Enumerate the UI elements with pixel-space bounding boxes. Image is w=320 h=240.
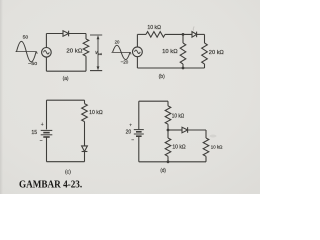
svg-text:+: +	[41, 122, 44, 128]
wire bottom rail (d)	[139, 161, 206, 163]
wire middle branch mid (d)	[167, 130, 169, 138]
ac source V2	[133, 47, 143, 57]
wire right branch top (d)	[205, 130, 207, 138]
diode D3 down	[82, 146, 88, 152]
resistor R4 20k	[202, 43, 208, 64]
wire right branch bottom (b)	[204, 64, 206, 68]
resistor R5 10k	[82, 104, 88, 122]
resistor R8 10k	[203, 138, 209, 156]
label R6 10 kOhm	[172, 113, 185, 119]
wire left branch bottom (c)	[46, 137, 48, 162]
svg-text:(b): (b)	[159, 74, 166, 80]
svg-text:(c): (c)	[65, 170, 71, 176]
svg-text:(a): (a)	[63, 76, 69, 82]
node junction top (b)	[182, 33, 185, 36]
battery B2 20V	[134, 130, 144, 137]
svg-text:(d): (d)	[160, 168, 166, 174]
smudge above R8 label	[210, 135, 217, 138]
label R8 10 kOhm	[211, 144, 223, 149]
wire middle branch bottom (b)	[182, 64, 184, 68]
svg-text:−: −	[40, 138, 43, 144]
wire top rail (c)	[47, 99, 85, 101]
wire resistor to diode (c)	[84, 122, 86, 146]
wire right branch top (b)	[204, 34, 206, 43]
label (c)	[65, 170, 71, 176]
smudge above D2	[192, 27, 195, 31]
label vout	[95, 50, 102, 56]
wire V2 top	[136, 34, 138, 47]
label 20	[126, 129, 132, 135]
svg-text:10 kΩ: 10 kΩ	[172, 144, 185, 150]
label R5 10 kOhm	[89, 110, 103, 116]
input waveform (b) 20/-20 sine	[112, 39, 132, 65]
label R1 20 kOhm	[66, 49, 82, 55]
wire diode to rail (c)	[84, 152, 86, 162]
svg-text:+: +	[129, 123, 132, 128]
svg-text:10 kΩ: 10 kΩ	[172, 113, 185, 119]
resistor R7 10k	[165, 138, 171, 156]
wire left branch top (d)	[138, 101, 140, 129]
label battery plus (c)	[41, 122, 44, 128]
wire bottom rail (c)	[47, 161, 85, 163]
svg-text:sal: sal	[98, 52, 103, 56]
wire V1 top to rail	[45, 34, 47, 48]
svg-text:−: −	[131, 137, 134, 143]
svg-text:20: 20	[115, 39, 120, 45]
svg-text:50: 50	[23, 35, 29, 41]
wire V1 bottom	[45, 57, 47, 71]
wire top rail lead (b)	[137, 33, 146, 35]
wire middle branch top (d)	[167, 101, 169, 106]
svg-text:15: 15	[31, 130, 37, 136]
battery B1 15V	[41, 130, 53, 137]
svg-text:20 kΩ: 20 kΩ	[209, 50, 224, 56]
svg-text:10 kΩ: 10 kΩ	[89, 110, 103, 116]
wire right branch top (a)	[85, 34, 87, 40]
diode D2	[192, 32, 197, 38]
label R2 10 kOhm	[147, 25, 161, 31]
wire left branch bottom (d)	[138, 136, 140, 161]
vout bottom tick	[90, 70, 102, 72]
wire right branch bottom (d)	[205, 156, 207, 162]
vout arrow	[97, 35, 100, 70]
wire top rail left segment (a)	[46, 33, 63, 35]
wire right branch bottom (a)	[85, 56, 87, 71]
svg-text:10 kΩ: 10 kΩ	[162, 49, 178, 55]
svg-text:GAMBAR 4-23.: GAMBAR 4-23.	[19, 180, 83, 191]
node junction bottom (d)	[167, 160, 170, 163]
wire V2 bottom	[136, 57, 138, 68]
node junction bottom (b)	[182, 67, 185, 70]
label (a)	[63, 76, 69, 82]
wire top rail right segment (a)	[69, 33, 86, 35]
resistor R6 10k	[165, 106, 171, 124]
label (b)	[159, 74, 166, 80]
diode D4	[182, 127, 188, 133]
wire middle branch low (d)	[167, 156, 169, 162]
wire middle branch top (b)	[182, 34, 184, 43]
wire bottom rail (b)	[137, 67, 204, 69]
svg-text:20: 20	[126, 129, 132, 135]
node junction mid (d)	[167, 129, 170, 132]
wire top rail (d)	[139, 100, 168, 102]
svg-text:−50: −50	[28, 61, 37, 67]
wire resistor to node (b)	[165, 33, 192, 35]
resistor R2 10k horizontal	[146, 32, 165, 38]
label 15	[31, 130, 37, 136]
label R7 10 kOhm	[172, 144, 185, 150]
vout top tick	[90, 34, 102, 36]
svg-text:10 kΩ: 10 kΩ	[211, 144, 223, 149]
label R3 10 kOhm	[162, 49, 178, 55]
diode D1	[63, 31, 69, 37]
svg-text:−20: −20	[121, 60, 129, 66]
wire R6 to node (d)	[167, 124, 169, 130]
wire bottom rail (a)	[46, 70, 86, 72]
wire node to diode (d)	[168, 129, 182, 131]
svg-text:20 kΩ: 20 kΩ	[66, 49, 82, 55]
ac source V1	[42, 48, 52, 58]
label battery minus (c)	[40, 138, 43, 144]
resistor R1 20k	[83, 39, 89, 56]
wire left branch top (c)	[46, 100, 48, 129]
label R4 20 kOhm	[209, 50, 224, 56]
label battery plus (d)	[129, 123, 132, 128]
label (d)	[160, 168, 166, 174]
wire diode to right corner (d)	[188, 129, 206, 131]
input waveform (a) 50/-50 sine	[16, 35, 38, 68]
wire right branch top (c)	[84, 100, 86, 103]
wire diode to right corner (b)	[197, 33, 205, 35]
caption GAMBAR 4-23	[19, 180, 83, 191]
label battery minus (d)	[131, 137, 134, 143]
svg-text:10 kΩ: 10 kΩ	[147, 25, 161, 31]
resistor R3 10k	[180, 43, 186, 64]
